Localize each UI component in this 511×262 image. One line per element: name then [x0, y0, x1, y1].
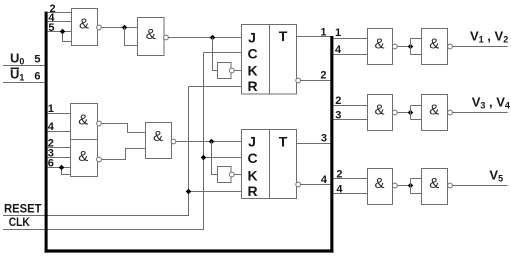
svg-text:4: 4 — [48, 121, 55, 133]
svg-text:4: 4 — [336, 183, 343, 195]
wire CLK net — [3, 53, 204, 230]
flip-flop FF2 box — [242, 130, 297, 199]
svg-text:&: & — [374, 101, 384, 118]
svg-text:&: & — [374, 36, 384, 53]
gate G11 bubble — [448, 183, 453, 188]
wire out2b right stub — [333, 178, 367, 180]
wire out1 right stub — [333, 38, 367, 40]
svg-text:&: & — [429, 36, 439, 53]
node FF2 R junction — [186, 189, 192, 195]
wire FF1 output 2 — [301, 80, 331, 82]
wire N2 to FF2 K — [234, 174, 241, 176]
svg-text:&: & — [146, 26, 156, 43]
svg-text:3: 3 — [321, 133, 327, 145]
inverter N2 box — [218, 167, 232, 183]
wire J to inverter N2 — [212, 142, 218, 175]
node G6-G7 junction — [408, 44, 414, 50]
gate G4 box — [71, 140, 98, 177]
gate G7 bubble — [448, 44, 453, 49]
wire pin4 stub lower — [48, 131, 71, 133]
svg-text:6: 6 — [48, 158, 54, 170]
svg-text:V3 , V4: V3 , V4 — [472, 95, 510, 111]
svg-text:J: J — [248, 30, 256, 46]
node G10-G11 junction — [408, 183, 414, 189]
wire G7 input fork — [411, 39, 422, 55]
wire G1 output — [101, 27, 137, 29]
gate G9 box — [422, 95, 448, 131]
svg-text:4: 4 — [321, 174, 328, 186]
svg-text:5: 5 — [34, 53, 40, 65]
wire U1 input line — [3, 82, 45, 84]
wire G9 input fork — [411, 106, 422, 120]
svg-text:5: 5 — [48, 22, 54, 34]
wire G8 to G9 — [397, 112, 410, 114]
wire pin6 stub lower — [48, 167, 71, 169]
svg-text:K: K — [247, 62, 257, 78]
wire V3 V4 output — [452, 112, 507, 114]
inverter N1 box — [218, 63, 232, 79]
wire FF2 output 3 — [297, 143, 331, 145]
gate G5 box — [146, 123, 172, 159]
svg-text:2: 2 — [320, 70, 326, 82]
gate G2 box — [138, 18, 165, 56]
flip-flop FF1 divider — [269, 25, 271, 95]
wire pin2 stub lower — [48, 147, 71, 149]
svg-text:K: K — [247, 167, 257, 183]
wire G10 to G11 — [397, 185, 410, 187]
wire pin2 stub — [48, 12, 72, 14]
gate G11 box — [422, 169, 448, 205]
wire out3 right stub — [333, 119, 367, 121]
wire V1 V2 output — [452, 46, 507, 48]
gate G6 box — [368, 29, 393, 65]
svg-text:T: T — [279, 28, 288, 44]
svg-text:RESET: RESET — [4, 204, 42, 216]
svg-text:4: 4 — [335, 44, 342, 56]
bottom frame line — [45, 249, 334, 252]
svg-text:2: 2 — [335, 95, 341, 107]
gate G3 bubble — [97, 121, 102, 126]
wire G3 to G5 — [101, 124, 145, 133]
svg-text:3: 3 — [335, 109, 341, 121]
wire U0 input line — [3, 65, 45, 67]
gate G1 box — [72, 9, 98, 46]
svg-text:&: & — [374, 175, 384, 192]
svg-text:1: 1 — [335, 27, 341, 39]
svg-text:1: 1 — [48, 103, 54, 115]
svg-text:R: R — [247, 183, 257, 199]
wire G11 input fork — [411, 179, 422, 194]
inverter N2 bubble — [229, 172, 234, 177]
wire G6 to G7 — [397, 46, 410, 48]
svg-text:&: & — [78, 112, 88, 129]
gate G10 bubble — [392, 183, 397, 188]
node FF2 J junction — [209, 139, 215, 145]
gate G7 box — [422, 29, 448, 65]
flip-flop FF1 inverted output bubble — [296, 78, 301, 83]
gate G4 bubble — [97, 157, 102, 162]
wire FF1 output 1 — [297, 36, 331, 38]
gate G6 bubble — [392, 44, 397, 49]
svg-text:T: T — [279, 133, 288, 149]
svg-text:&: & — [153, 128, 163, 145]
svg-text:1: 1 — [320, 27, 326, 39]
node pin6 junction — [59, 165, 65, 171]
wire FF2 C input — [204, 157, 242, 159]
wire pin5 stub — [48, 31, 72, 33]
wire G2 lower input branch — [125, 28, 138, 46]
wire FF2 R input — [189, 191, 242, 193]
wire pin3 stub lower — [48, 157, 71, 159]
wire out4b right stub — [333, 193, 367, 195]
gate G8 box — [368, 95, 393, 131]
svg-text:&: & — [79, 16, 89, 33]
wire pin4 stub — [48, 21, 72, 23]
svg-text:C: C — [247, 150, 257, 166]
wire G2 to FF1 J — [168, 37, 241, 39]
wire V5 output — [452, 185, 507, 187]
right bus bar — [330, 36, 333, 253]
gate G9 bubble — [448, 110, 453, 115]
wire out2 right stub — [333, 105, 367, 107]
svg-text:6: 6 — [34, 70, 40, 82]
node pin5 junction — [60, 29, 66, 35]
wire FF1 R input — [189, 86, 242, 88]
flip-flop FF1 box — [242, 25, 297, 95]
wire pin1 stub lower — [48, 113, 71, 115]
wire pin5 branch — [63, 32, 72, 42]
svg-text:&: & — [429, 101, 439, 118]
flip-flop FF2 divider — [269, 130, 271, 199]
svg-text:2: 2 — [336, 169, 342, 181]
svg-text:&: & — [78, 148, 88, 165]
gate G1 bubble — [97, 25, 102, 30]
wire pin6 branch — [62, 168, 71, 175]
node FF1 J junction — [210, 35, 216, 41]
wire out4a right stub — [333, 54, 367, 56]
wire G4 to G5 — [101, 149, 145, 160]
wire J to inverter N1 — [213, 38, 218, 71]
wire RESET net — [3, 87, 189, 216]
gate G3 box — [71, 104, 98, 140]
left bus bar — [45, 12, 48, 253]
svg-text:&: & — [429, 175, 439, 192]
svg-text:J: J — [248, 134, 256, 150]
node FF2 C junction — [201, 155, 207, 161]
node G1-G2 junction — [122, 25, 128, 31]
wire G5 to FF2 J — [176, 141, 242, 143]
gate G2 bubble — [164, 35, 169, 40]
node G8-G9 junction — [408, 110, 414, 116]
svg-text:CLK: CLK — [9, 217, 31, 229]
svg-text:R: R — [247, 78, 257, 94]
wire N1 to FF1 K — [234, 70, 241, 72]
flip-flop FF2 inverted output bubble — [296, 182, 301, 187]
gate G8 bubble — [392, 110, 397, 115]
inverter N1 bubble — [229, 68, 234, 73]
wire FF1 C input — [204, 52, 242, 54]
wire FF2 output 4 — [301, 184, 331, 186]
label U1 overline — [11, 68, 20, 69]
svg-text:C: C — [247, 46, 257, 62]
gate G5 bubble — [171, 139, 176, 144]
svg-text:V1 , V2: V1 , V2 — [470, 29, 508, 45]
gate G10 box — [368, 169, 393, 205]
